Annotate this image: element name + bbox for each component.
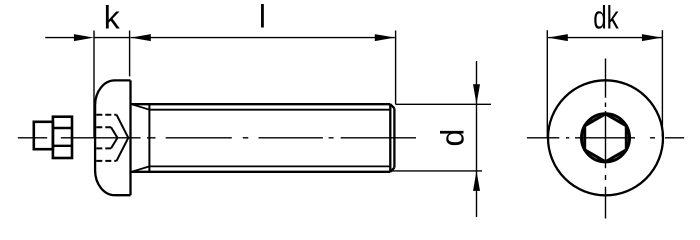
hex key edge line upper: [53, 127, 72, 129]
hex key edge line lower: [53, 145, 72, 147]
d arrowhead bottom: [473, 171, 480, 191]
shank end face: [393, 108, 395, 167]
head bearing face: [129, 80, 131, 195]
svg-text:k: k: [104, 0, 121, 36]
k leader line: [45, 37, 88, 39]
hidden socket line top outer: [96, 114, 116, 116]
thread runout diagonal top: [131, 104, 149, 110]
l arrowhead left: [131, 34, 151, 41]
socket cone inner V: [111, 127, 118, 148]
k extension line left: [93, 31, 95, 139]
k extension line right: [129, 31, 131, 77]
d arrowhead top: [473, 84, 480, 104]
d dimension line: [476, 61, 478, 217]
end view vertical centerline: [605, 59, 607, 219]
hex key arm hex body: [53, 117, 72, 158]
full thread line: [148, 104, 150, 172]
svg-text:dk: dk: [593, 0, 619, 36]
screw head outline (button head dome): [95, 80, 130, 195]
socket cone outer V: [117, 115, 129, 161]
dk dimension line: [548, 37, 662, 39]
end view hex socket: [585, 114, 627, 162]
dk extension line left: [546, 30, 548, 137]
shank major diameter bottom: [131, 171, 391, 173]
dk arrowhead right: [642, 34, 662, 41]
shank major diameter top: [131, 103, 391, 105]
thread minor line bottom: [149, 165, 390, 167]
chamfer edge line: [389, 104, 391, 172]
hidden socket line top inner: [96, 126, 111, 128]
l extension line right: [395, 31, 397, 105]
d extension line bottom: [392, 170, 482, 172]
hex key short arm: [34, 122, 53, 149]
centerline side view: [18, 137, 416, 139]
thread runout diagonal bottom: [131, 166, 149, 171]
k leader arrowhead: [74, 34, 94, 41]
dk extension line right: [661, 30, 663, 137]
chamfer diagonal top: [390, 104, 394, 108]
end view socket circle: [582, 114, 630, 162]
end view horizontal centerline: [527, 137, 684, 139]
l arrowhead right: [375, 34, 395, 41]
dk arrowhead left: [548, 34, 568, 41]
chamfer diagonal bottom: [390, 168, 394, 172]
svg-text:l: l: [259, 0, 266, 35]
d extension line top: [396, 103, 491, 105]
k dimension line: [94, 37, 130, 39]
end view outer circle (head diameter): [548, 80, 663, 195]
svg-text:d: d: [435, 129, 471, 147]
hidden socket line bottom inner: [96, 147, 111, 149]
l dimension line: [131, 37, 395, 39]
hidden socket line bottom outer: [96, 160, 116, 162]
thread minor line top: [149, 109, 390, 111]
